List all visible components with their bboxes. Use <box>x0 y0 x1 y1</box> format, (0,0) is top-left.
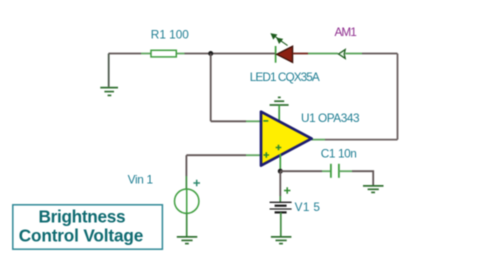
ground (below Vin) <box>177 237 198 244</box>
label V1 5 <box>295 200 321 214</box>
ground (right of C1) <box>363 186 384 193</box>
ground (below battery) <box>271 237 292 244</box>
node junction below op-amp <box>278 169 283 174</box>
wire Vin stem up <box>185 155 187 189</box>
op-amp negative supply flipped ground <box>270 97 289 105</box>
op-amp top supply pin <box>278 105 280 122</box>
wire feedback vertical <box>210 54 212 122</box>
wire Vin to ground <box>186 213 188 236</box>
wire battery to ground <box>280 212 282 236</box>
op-amp minus mark <box>263 120 268 122</box>
wire ground stem at left <box>108 54 110 87</box>
op-amp plus mark (supply) <box>276 145 282 151</box>
wire ammeter to right corner <box>345 53 397 55</box>
ammeter AM1 arrow <box>339 50 346 59</box>
wire R1 to LED (through node) <box>185 53 276 55</box>
battery V1 <box>270 202 292 212</box>
svg-text:U1 OPA343: U1 OPA343 <box>301 111 360 125</box>
op-amp plus mark (input) <box>264 152 270 158</box>
wire C1 to ground <box>339 171 373 185</box>
label Vin 1 <box>128 173 154 187</box>
LED1 light arrows <box>271 34 287 46</box>
wire junction to C1 <box>280 170 330 172</box>
label AM1 <box>335 25 357 39</box>
svg-text:AM1: AM1 <box>335 25 357 39</box>
resistor R1 <box>141 50 185 57</box>
svg-text:C1 10n: C1 10n <box>321 147 357 161</box>
LED1 diode <box>276 46 308 63</box>
label LED1 CQX35A <box>250 70 320 84</box>
label C1 10n <box>321 147 357 161</box>
svg-text:LED1 CQX35A: LED1 CQX35A <box>250 70 320 84</box>
svg-text:Vin 1: Vin 1 <box>128 173 154 187</box>
wire op-amp output <box>312 139 398 141</box>
wire Vin to noninverting input <box>186 154 261 156</box>
svg-text:V1 5: V1 5 <box>295 200 321 214</box>
svg-text:Control Voltage: Control Voltage <box>19 226 144 246</box>
node junction at feedback <box>208 51 213 56</box>
wire right vertical <box>397 54 399 140</box>
source Vin plus mark <box>193 180 200 187</box>
svg-text:Brightness: Brightness <box>39 207 126 227</box>
capacitor C1 <box>331 164 339 178</box>
svg-text:R1 100: R1 100 <box>151 28 189 42</box>
wire feedback to inverting input <box>211 120 261 122</box>
label R1 100 <box>151 28 189 42</box>
annotation box Brightness Control Voltage <box>13 205 163 249</box>
wire junction to battery <box>279 171 281 202</box>
battery plus mark <box>284 187 290 193</box>
op-amp U1 <box>261 112 312 166</box>
wire from ground to R1 left pin <box>109 53 142 55</box>
wire LED to ammeter <box>308 53 338 55</box>
label U1 OPA343 <box>301 111 360 125</box>
op-amp bottom supply pin <box>279 154 281 171</box>
ground (left of R1) <box>100 88 118 96</box>
voltage source Vin <box>175 189 199 213</box>
